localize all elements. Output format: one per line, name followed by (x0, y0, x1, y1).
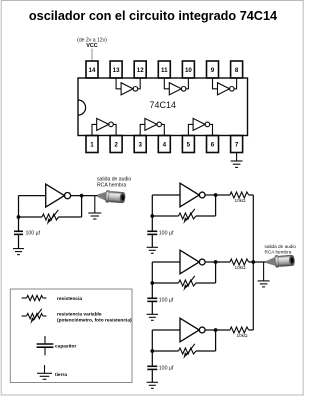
node output junction (214, 260, 218, 264)
resistor R1 10k (230, 192, 249, 198)
node input junction (150, 214, 154, 218)
wire input (152, 261, 180, 263)
pin 4 (158, 136, 170, 153)
wire input (19, 195, 46, 197)
wire output (205, 261, 230, 263)
arrow (186, 344, 195, 356)
oscillator A (147, 183, 254, 253)
inverter U1D (pins 1-2) (92, 118, 116, 135)
wire RCA ground drop (94, 196, 96, 213)
svg-text:10kΩ: 10kΩ (236, 333, 248, 338)
wire left rail (18, 196, 20, 231)
svg-text:4: 4 (163, 142, 167, 149)
ground RCA left (88, 213, 101, 219)
svg-text:VCC: VCC (86, 43, 97, 49)
notch (78, 100, 86, 115)
svg-text:capasitor: capasitor (55, 343, 76, 349)
wire left rail (151, 195, 153, 231)
resistor VR variable (179, 348, 197, 354)
svg-text:5: 5 (187, 142, 191, 149)
pin 8 (231, 61, 243, 78)
svg-text:74C14: 74C14 (150, 100, 177, 110)
wire feedback drop (215, 330, 217, 351)
svg-text:6: 6 (211, 142, 215, 149)
svg-text:10: 10 (185, 67, 192, 74)
oscillator B (147, 250, 254, 320)
inverter gate (180, 250, 199, 274)
wire output (205, 194, 230, 196)
pin 13 (110, 61, 122, 78)
inverter U1B (pins 11-10) (164, 78, 188, 95)
inverter U1F (pins 5-6) (188, 118, 212, 135)
node output junction (214, 328, 218, 332)
svg-text:100 µf: 100 µf (159, 230, 174, 236)
svg-text:10kΩ: 10kΩ (234, 265, 246, 270)
pin 3 (134, 136, 146, 153)
svg-text:9: 9 (211, 67, 215, 74)
node input junction (150, 349, 154, 353)
wire output (205, 329, 230, 331)
svg-text:tierra: tierra (55, 372, 67, 378)
ground pin 7 (231, 153, 243, 168)
svg-text:10kΩ: 10kΩ (234, 198, 246, 203)
ground left (13, 249, 24, 255)
inverter gate (180, 318, 199, 342)
svg-text:3: 3 (138, 142, 142, 149)
capacitor 100uf (147, 365, 157, 367)
svg-text:12: 12 (137, 67, 144, 74)
wire feedback drop (215, 262, 217, 283)
pin 11 (158, 61, 170, 78)
pin 1 (86, 136, 98, 153)
resistor VR variable (179, 213, 197, 219)
node output junction (214, 193, 218, 197)
arrow (186, 276, 195, 288)
legend variable resistor symbol (22, 313, 47, 318)
ground (147, 313, 158, 315)
svg-text:salida de audio: salida de audio (265, 244, 297, 249)
wire output (71, 195, 98, 197)
wire feedback drop (215, 195, 217, 216)
wire to RCA right (253, 261, 266, 263)
resistor R2 10k (230, 259, 249, 265)
node input junction (150, 281, 154, 285)
svg-text:100 µf: 100 µf (26, 230, 41, 236)
pin 2 (110, 136, 122, 153)
ground RCA right (258, 281, 270, 287)
wire left rail (151, 330, 153, 366)
svg-text:1: 1 (90, 142, 94, 149)
legend capacitor symbol (37, 336, 54, 355)
wire feedback horizontal (196, 215, 216, 217)
legend box (10, 289, 132, 383)
pin 6 (207, 136, 219, 153)
legend ground symbol (37, 365, 52, 379)
svg-text:RCA hembra: RCA hembra (265, 250, 292, 255)
wire feedback horizontal (196, 350, 216, 352)
node output junction (80, 194, 84, 198)
wire RCA right ground drop (263, 262, 265, 281)
svg-text:11: 11 (161, 67, 168, 74)
wire feedback horizontal (59, 216, 82, 218)
op-amp U1 74C14 body (78, 78, 248, 136)
inverter gate (180, 183, 199, 207)
pin 7 (231, 136, 243, 153)
arrow of legend variable resistor (33, 309, 42, 321)
resistor VR variable (179, 280, 197, 286)
svg-text:resistencia: resistencia (57, 296, 82, 302)
pin 10 (182, 61, 194, 78)
capacitor 100uf (147, 297, 157, 299)
svg-text:100 µf: 100 µf (159, 297, 174, 303)
wire feedback horizontal (196, 282, 216, 284)
svg-text:7: 7 (235, 142, 239, 149)
svg-text:100 µf: 100 µf (159, 365, 174, 371)
svg-text:oscilador con el circuito inte: oscilador con el circuito integrado 74C1… (29, 9, 277, 23)
node input junction (17, 215, 21, 219)
pin 9 (207, 61, 219, 78)
svg-text:resistencia variable: resistencia variable (57, 311, 102, 317)
wire input (152, 329, 180, 331)
svg-text:13: 13 (113, 67, 120, 74)
inverter U1A (pins 13-12) (116, 78, 140, 95)
resistor VR1 variable (42, 214, 59, 220)
ground (147, 246, 158, 248)
RCA jack left (97, 190, 126, 204)
svg-text:RCA hembra: RCA hembra (97, 183, 126, 189)
node bus tap (251, 260, 255, 264)
pin 14 (86, 61, 98, 78)
wire input (152, 194, 180, 196)
svg-text:2: 2 (114, 142, 118, 149)
capacitor 100uf (147, 230, 157, 232)
arrow (186, 209, 195, 221)
inverter U1C (pins 9-8) (213, 78, 237, 95)
svg-text:8: 8 (235, 67, 239, 74)
inverter gate (46, 184, 71, 207)
arrow of VR1 (50, 210, 59, 222)
capacitor C1 100uf (14, 231, 23, 248)
wire feedback drop (81, 196, 83, 217)
legend resistor symbol (22, 295, 47, 300)
wire VCC to pin 14 (91, 49, 93, 61)
pin 5 (182, 136, 194, 153)
oscillator C (147, 318, 254, 388)
inverter U1E (pins 3-4) (140, 118, 164, 135)
resistor R3 10k (230, 327, 249, 333)
RCA jack right (266, 254, 295, 268)
ground (147, 381, 158, 383)
wire bus (252, 195, 254, 330)
pin 12 (134, 61, 146, 78)
wire left rail (151, 262, 153, 298)
svg-text:14: 14 (89, 67, 96, 74)
svg-text:(potenciómetro, foto resistenc: (potenciómetro, foto resistencia) (57, 317, 132, 323)
